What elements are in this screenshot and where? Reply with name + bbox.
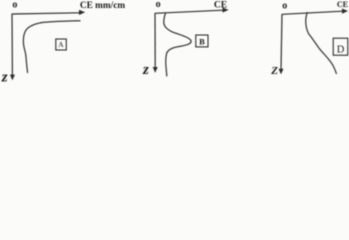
graph D: horizontal axis with arrow [282, 9, 348, 15]
svg-text:o: o [156, 0, 161, 10]
graph B: answer box B [196, 35, 208, 47]
svg-text:z: z [142, 62, 149, 78]
graph D: vertical axis with arrow [279, 14, 284, 74]
svg-text:A: A [58, 40, 64, 49]
graph A: concentration profile curve [23, 21, 80, 73]
svg-text:CE mm/cm: CE mm/cm [80, 1, 125, 11]
graph A: horizontal axis with arrow [12, 10, 85, 15]
svg-text:CE: CE [337, 0, 348, 9]
graph A: answer box A [56, 39, 67, 50]
svg-text:o: o [282, 0, 287, 11]
svg-text:D: D [337, 45, 345, 56]
graph B: concentration curve with bulge [164, 13, 191, 76]
graph B: horizontal axis with arrow [155, 7, 229, 13]
graph D: answer box D [333, 38, 348, 55]
svg-text:CE: CE [214, 0, 227, 10]
graph A: vertical axis with arrow [10, 14, 15, 81]
graph B: vertical axis with arrow [153, 13, 158, 73]
svg-text:B: B [199, 37, 205, 47]
svg-text:Z: Z [270, 65, 278, 77]
svg-text:z: z [1, 69, 8, 85]
graph D: concentration curve [306, 12, 337, 74]
svg-text:o: o [12, 0, 17, 10]
